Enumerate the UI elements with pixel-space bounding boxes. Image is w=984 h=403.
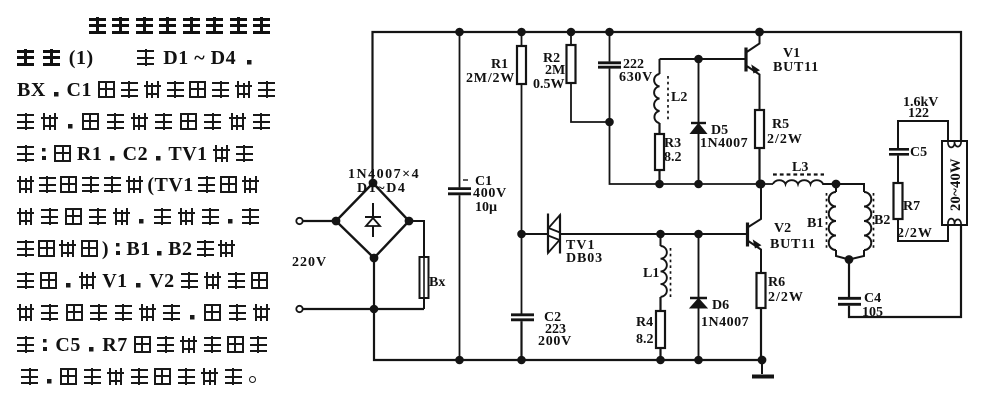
label D5 1N4007 bbox=[700, 123, 748, 151]
label V2 BUT11 bbox=[770, 221, 816, 252]
capacitor 222/630V bbox=[598, 29, 621, 125]
svg-text:20~40W: 20~40W bbox=[948, 158, 964, 211]
label R4 8.2 bbox=[636, 315, 654, 347]
paragraph line 9 bbox=[17, 272, 268, 289]
wire V1 emitter / V2 collector node bbox=[610, 122, 774, 184]
svg-text:8.2: 8.2 bbox=[664, 150, 682, 165]
label 1.6kV 122 bbox=[903, 95, 938, 121]
label R1 2M/2W bbox=[466, 57, 515, 86]
transistor V1 bbox=[746, 29, 763, 110]
bridge rectifier D1-D4 bbox=[333, 180, 413, 262]
choke B1 bbox=[827, 184, 850, 260]
svg-text:L1: L1 bbox=[643, 266, 659, 281]
paragraph line 6 bbox=[17, 176, 259, 193]
wire top rail bbox=[373, 32, 962, 183]
paragraph line 10 bbox=[17, 304, 270, 321]
svg-text:R4: R4 bbox=[636, 315, 653, 330]
paragraph line 4 bbox=[17, 113, 270, 130]
label R2 2M 0.5W bbox=[533, 51, 565, 92]
label R3 8.2 bbox=[664, 136, 682, 165]
svg-text:C4: C4 bbox=[864, 291, 881, 306]
diode D5 bbox=[691, 56, 707, 187]
paragraph line 7 bbox=[17, 208, 259, 225]
label R6 2/2W bbox=[768, 275, 804, 305]
resistor R7 bbox=[894, 183, 949, 241]
label C4 105 bbox=[862, 291, 883, 320]
svg-text:2/2W: 2/2W bbox=[897, 226, 933, 241]
label TV1 DB03 bbox=[566, 238, 603, 266]
paragraph line 5 bbox=[17, 145, 253, 162]
svg-text:220V: 220V bbox=[292, 255, 327, 270]
wire bottom rail bbox=[374, 258, 762, 360]
svg-text:R5: R5 bbox=[772, 117, 789, 132]
paragraph line 12 bbox=[21, 368, 259, 385]
svg-text:400V: 400V bbox=[473, 186, 507, 201]
svg-text:8.2: 8.2 bbox=[636, 332, 654, 347]
svg-text:R6: R6 bbox=[768, 275, 785, 290]
svg-text:R3: R3 bbox=[664, 136, 681, 151]
svg-text:2/2W: 2/2W bbox=[768, 290, 804, 305]
svg-text:200V: 200V bbox=[538, 334, 572, 349]
paragraph line 1 (bold title) bbox=[89, 17, 270, 34]
svg-text:0.5W: 0.5W bbox=[533, 77, 565, 92]
capacitor C2 bbox=[511, 315, 534, 363]
label V1 BUT11 bbox=[773, 46, 819, 75]
resistor R1 bbox=[517, 29, 526, 314]
wire lamp top-left to C5 bbox=[898, 121, 948, 148]
wire V1 base node bbox=[660, 58, 746, 60]
resistor R3 bbox=[655, 134, 664, 187]
svg-text:630V: 630V bbox=[619, 70, 653, 85]
svg-text:L2: L2 bbox=[671, 90, 687, 105]
svg-text:1N4007×4: 1N4007×4 bbox=[348, 167, 420, 182]
capacitor C5 bbox=[889, 149, 909, 183]
fuse Bx bbox=[409, 221, 429, 309]
transistor V2 bbox=[748, 181, 765, 273]
svg-text:105: 105 bbox=[862, 305, 883, 320]
paragraph line 3 bbox=[17, 81, 275, 98]
svg-text:DB03: DB03 bbox=[566, 251, 603, 266]
svg-text:R1: R1 bbox=[491, 57, 508, 72]
diode D6 bbox=[690, 231, 707, 363]
svg-text:D6: D6 bbox=[712, 298, 729, 313]
ground bbox=[752, 360, 774, 377]
svg-text:2M: 2M bbox=[545, 63, 565, 78]
label C1 400V 10u bbox=[473, 174, 507, 215]
lamp 20~40W bbox=[942, 141, 967, 225]
resistor R2 bbox=[567, 29, 610, 122]
diac TV1 bbox=[518, 214, 560, 254]
paragraph line 2 bbox=[17, 49, 254, 66]
svg-text:1N4007: 1N4007 bbox=[701, 315, 749, 330]
svg-text:L3: L3 bbox=[792, 160, 808, 175]
svg-text:2/2W: 2/2W bbox=[767, 132, 803, 147]
svg-text:122: 122 bbox=[908, 106, 929, 121]
svg-text:V1: V1 bbox=[783, 46, 800, 61]
label R7 2/2W bbox=[897, 199, 933, 241]
label R5 2/2W bbox=[767, 117, 803, 147]
inductor L2 bbox=[654, 59, 668, 134]
terminal 220V upper bbox=[296, 218, 336, 224]
paragraph line 8 bbox=[17, 240, 235, 257]
wire V2 base node bbox=[522, 233, 748, 235]
resistor R6 bbox=[757, 273, 766, 363]
svg-text:10µ: 10µ bbox=[475, 200, 497, 215]
paragraph line 11 bbox=[17, 336, 267, 353]
capacitor C1 bbox=[448, 29, 471, 363]
label D6 1N4007 bbox=[701, 298, 749, 330]
terminal 220V lower bbox=[296, 306, 424, 312]
svg-text:B2: B2 bbox=[874, 213, 890, 228]
label 222 630V bbox=[619, 57, 653, 85]
capacitor C4 bbox=[838, 225, 961, 317]
svg-text:V2: V2 bbox=[774, 221, 791, 236]
svg-text:B1: B1 bbox=[807, 216, 823, 231]
svg-text:1N4007: 1N4007 bbox=[700, 136, 748, 151]
svg-text:D1~D4: D1~D4 bbox=[357, 181, 407, 196]
svg-text:BUT11: BUT11 bbox=[773, 60, 819, 75]
svg-text:C5: C5 bbox=[910, 145, 927, 160]
resistor R5 bbox=[755, 110, 764, 187]
choke B2 bbox=[836, 184, 874, 263]
inductor L1 bbox=[657, 231, 670, 311]
resistor R4 bbox=[656, 311, 665, 363]
svg-text:R7: R7 bbox=[903, 199, 920, 214]
svg-text:Bx: Bx bbox=[429, 275, 445, 290]
label C2 223 200V bbox=[538, 310, 572, 349]
svg-text:2M/2W: 2M/2W bbox=[466, 71, 515, 86]
inductor L3 bbox=[773, 175, 839, 188]
junction 220V lower to bridge bottom bbox=[371, 306, 377, 312]
svg-text:BUT11: BUT11 bbox=[770, 237, 816, 252]
